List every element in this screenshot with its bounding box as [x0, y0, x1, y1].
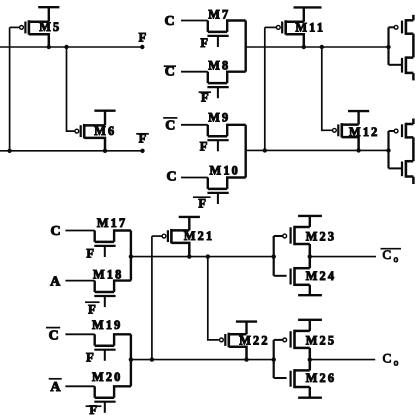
- wire lower carry net: [131, 359, 274, 361]
- svg-text:M21: M21: [184, 229, 215, 243]
- junction input tap (right edge): [386, 45, 390, 49]
- transistor M12 (PMOS): [332, 123, 359, 150]
- ground rail for M24: [298, 285, 322, 295]
- junction M5 drain to F line: [47, 45, 51, 49]
- supply rail for M21: [179, 217, 200, 231]
- wire gate to PMOS (right edge): [389, 26, 397, 28]
- svg-text:M22: M22: [239, 333, 270, 347]
- wire M6 gate from F line: [67, 47, 75, 131]
- junction M12 drain on lower net: [356, 148, 360, 152]
- input wire to M7: [181, 20, 208, 22]
- svg-text:F: F: [89, 403, 97, 415]
- bus M9/M10 outputs: [244, 125, 246, 178]
- output label Cobar: [381, 247, 402, 264]
- drain of M25 to output node: [309, 348, 312, 360]
- junction M22 gate tap on upper net: [206, 254, 210, 258]
- transistor M22 (PMOS): [218, 333, 246, 360]
- transistor edge PMOS (PMOS): [394, 123, 413, 139]
- supply rail for M12: [348, 111, 369, 125]
- input label Cbar of M9: [163, 118, 177, 133]
- node label Fbar: [136, 132, 149, 146]
- transistor M24 (NMOS): [291, 267, 310, 286]
- svg-text:M26: M26: [306, 371, 337, 385]
- gate label Fbar of M10: [193, 197, 211, 211]
- transistor M19 (pass NMOS): [94, 334, 131, 361]
- svg-text:A: A: [50, 275, 61, 290]
- wire F line: [0, 46, 142, 48]
- drain connection (right edge pair): [412, 34, 415, 58]
- supply rail for M6: [94, 111, 115, 126]
- gate label F of M9: [200, 140, 208, 154]
- wire gate to M26: [274, 377, 287, 379]
- svg-text:M9: M9: [208, 111, 230, 125]
- svg-text:F: F: [86, 247, 94, 261]
- svg-text:C: C: [166, 170, 176, 185]
- svg-text:M7: M7: [208, 8, 230, 22]
- gate label F of M19: [86, 351, 94, 365]
- svg-text:C: C: [165, 118, 175, 133]
- gate label Fbar of M20: [86, 403, 102, 415]
- gate label F of M7: [200, 36, 208, 50]
- junction M21 gate on lower net: [150, 357, 154, 361]
- node Fbar terminal dot: [140, 149, 144, 153]
- junction M5 gate on Fbar line: [7, 149, 11, 153]
- svg-text:C: C: [49, 329, 59, 344]
- source stub (right edge NMOS): [412, 73, 415, 80]
- svg-text:C: C: [51, 224, 61, 239]
- transistor M25 (PMOS): [283, 330, 310, 349]
- junction output node: [308, 254, 312, 258]
- input label Cbar of M19: [46, 328, 60, 344]
- svg-text:M12: M12: [349, 125, 380, 139]
- svg-text:M19: M19: [92, 318, 123, 332]
- input wire to M9: [181, 124, 208, 126]
- wire XOR net to M11 stage: [246, 46, 389, 48]
- transistor M17 (pass NMOS): [94, 231, 131, 258]
- wire XNOR net to M12 stage: [246, 149, 389, 151]
- input wire to M10: [181, 177, 208, 179]
- bus inverter input (right edge): [387, 131, 389, 168]
- svg-text:M23: M23: [306, 230, 337, 244]
- wire M11 gate to lower net: [264, 27, 266, 150]
- wire gate to PMOS (right edge): [389, 130, 397, 132]
- junction M22 drain on lower net: [244, 357, 248, 361]
- svg-text:M6: M6: [94, 124, 116, 138]
- transistor M20 (pass NMOS): [94, 386, 131, 413]
- junction inverter input: [272, 357, 276, 361]
- transistor M10 (pass NMOS): [207, 178, 245, 205]
- drain of M23 to output node: [309, 244, 312, 257]
- transistor M5 (PMOS): [10, 20, 49, 47]
- junction M11 gate on lower net: [263, 148, 267, 152]
- supply rail for M5: [38, 7, 59, 22]
- wire upper carry net: [131, 256, 274, 258]
- wire output: [310, 359, 375, 361]
- junction carry tap: [129, 357, 133, 361]
- bus M19/M20 outputs: [130, 334, 132, 386]
- drain of M24 to output node: [309, 257, 312, 269]
- svg-text:M18: M18: [93, 268, 124, 282]
- transistor M26 (NMOS): [291, 369, 310, 388]
- wire gate to NMOS (right edge): [389, 64, 403, 66]
- svg-text:A: A: [50, 380, 61, 395]
- transistor edge PMOS (PMOS): [394, 19, 413, 35]
- svg-text:F: F: [200, 36, 208, 50]
- bus M7/M8 outputs: [244, 21, 246, 72]
- bus inverter gates: [273, 340, 275, 378]
- svg-text:C: C: [165, 14, 175, 29]
- wire M21 gate to lower net: [151, 236, 153, 360]
- svg-text:M10: M10: [210, 163, 241, 177]
- wire Fbar line: [0, 150, 143, 152]
- svg-text:M17: M17: [97, 216, 128, 230]
- input wire to M18: [65, 280, 94, 282]
- supply stub (right edge PMOS): [412, 119, 415, 125]
- junction M11 drain on upper net: [302, 45, 306, 49]
- junction inverter input: [272, 254, 276, 258]
- input wire to M20: [65, 385, 94, 387]
- wire output: [310, 256, 376, 258]
- wire gate to NMOS (right edge): [389, 167, 403, 169]
- junction M12 gate tap on upper net: [320, 45, 324, 49]
- svg-text:F: F: [88, 303, 96, 317]
- transistor M23 (PMOS): [283, 226, 310, 245]
- wire M22 gate from upper net: [208, 257, 219, 340]
- wire M5 gate to Fbar line: [9, 27, 11, 150]
- svg-text:F: F: [86, 351, 94, 365]
- transistor M8 (pass NMOS): [207, 72, 245, 99]
- gate label Fbar of M8: [199, 91, 211, 105]
- supply rail for M25: [298, 320, 322, 331]
- input wire to M17: [65, 230, 94, 232]
- gate label F of M17: [86, 247, 94, 261]
- bus inverter input (right edge): [387, 27, 389, 65]
- svg-text:F: F: [200, 140, 208, 154]
- wire M12 gate from upper net: [322, 47, 332, 130]
- output label Co: [383, 351, 399, 368]
- ground rail for M26: [298, 387, 322, 398]
- drain connection (right edge pair): [412, 137, 415, 161]
- svg-text:F: F: [198, 197, 206, 211]
- svg-text:o: o: [394, 358, 399, 368]
- supply rail for M11: [294, 7, 322, 21]
- junction input tap (right edge): [386, 148, 390, 152]
- junction M21 drain on upper net: [187, 254, 191, 258]
- source stub (right edge NMOS): [412, 177, 415, 184]
- junction sum tap: [129, 254, 133, 258]
- supply stub (right edge PMOS): [412, 15, 415, 20]
- svg-text:F: F: [139, 30, 147, 44]
- transistor M11 (PMOS): [265, 20, 304, 47]
- wire gate to M25: [274, 339, 285, 341]
- svg-text:M25: M25: [306, 334, 337, 348]
- transistor edge NMOS (NMOS): [402, 56, 413, 74]
- gate label Fbar of M18: [85, 302, 100, 316]
- bus inverter gates: [273, 236, 275, 276]
- wire gate to M23: [274, 235, 285, 237]
- junction M6 drain to Fbar line: [103, 149, 107, 153]
- transistor M18 (pass NMOS): [94, 281, 131, 308]
- transistor M21 (PMOS): [152, 229, 189, 257]
- drain of M26 to output node: [309, 360, 312, 371]
- bus M17/M18 outputs: [130, 231, 132, 281]
- svg-text:o: o: [394, 254, 399, 264]
- node F terminal dot: [140, 45, 144, 49]
- transistor M7 (pass NMOS): [207, 21, 245, 48]
- input wire to M8: [181, 71, 208, 73]
- transistor edge NMOS (NMOS): [402, 160, 413, 178]
- svg-text:M11: M11: [295, 20, 325, 34]
- transistor M9 (pass NMOS): [207, 125, 245, 152]
- input wire to M19: [65, 333, 94, 335]
- supply rail for M23: [298, 216, 322, 227]
- wire gate to M24: [274, 275, 287, 277]
- input label Abar of M20: [49, 379, 62, 395]
- junction M6 gate tap on F line: [64, 45, 68, 49]
- svg-text:C: C: [383, 351, 392, 366]
- svg-text:M24: M24: [306, 269, 337, 283]
- junction output node: [308, 357, 312, 361]
- svg-text:M8: M8: [208, 59, 230, 73]
- transistor M6 (PMOS): [75, 124, 105, 151]
- input label Cbar of M8: [164, 65, 176, 80]
- svg-text:M5: M5: [39, 20, 61, 34]
- svg-text:M20: M20: [92, 370, 123, 384]
- supply rail for M22: [236, 322, 257, 335]
